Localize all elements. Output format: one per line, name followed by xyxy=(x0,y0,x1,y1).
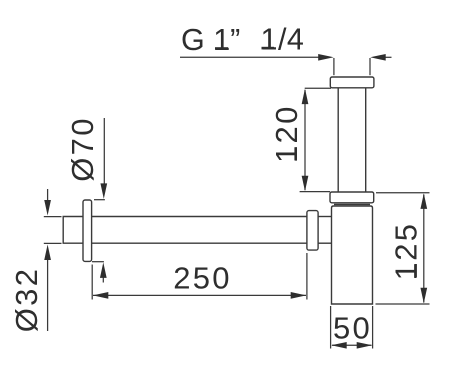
arrow d70 up xyxy=(100,262,107,278)
extension line 50 right xyxy=(372,306,374,349)
wire pipe segment nut to body top xyxy=(318,216,331,218)
gasket line under nut xyxy=(334,204,370,206)
svg-text:Ø70: Ø70 xyxy=(65,116,100,182)
extension line top right xyxy=(369,58,371,75)
arrow top right pointing left xyxy=(370,54,386,61)
arrow d32 up xyxy=(44,245,51,261)
dimension line 250 xyxy=(93,294,306,296)
body top nut xyxy=(330,192,374,203)
wall flange disc (d70) xyxy=(83,200,92,261)
extension line 120 bottom xyxy=(300,191,330,193)
wire d32 top arrow tail xyxy=(47,189,49,202)
arrow 125 up xyxy=(420,193,427,209)
leader line under G 1" 1/4 xyxy=(180,56,319,58)
top flange (G 1" 1/4 connector) xyxy=(330,77,374,88)
foot serif of 1 in G 1" xyxy=(215,47,228,50)
horizontal pipe end cap xyxy=(63,217,83,244)
extension line top left xyxy=(333,58,335,75)
extension line 125 bottom xyxy=(376,303,430,305)
arrow 250 right xyxy=(291,292,307,299)
wire pipe segment nut to body bottom xyxy=(318,242,331,244)
wire pipe bottom edge xyxy=(92,242,307,244)
svg-text:120: 120 xyxy=(269,104,304,163)
wire vertical pipe right edge xyxy=(365,88,367,192)
wire d70 bottom arrow tail xyxy=(102,276,104,283)
extension line d32 top xyxy=(44,216,62,218)
arrow 125 down xyxy=(420,288,427,304)
extension line 120 top xyxy=(305,87,331,89)
dimension line 125 xyxy=(423,195,425,303)
extension line 125 top xyxy=(376,192,430,194)
wire pipe top edge xyxy=(92,216,307,218)
dimension line 50 xyxy=(332,344,372,346)
bottle body xyxy=(332,206,373,304)
arrow 250 left xyxy=(93,292,109,299)
extension line d70 top xyxy=(94,199,105,201)
arrow d70 down xyxy=(100,183,107,199)
dimension line 120 xyxy=(304,90,306,190)
side nut on pipe xyxy=(307,211,318,251)
svg-text:G 1”: G 1” xyxy=(181,23,240,57)
wire vertical pipe left edge xyxy=(337,88,339,192)
svg-text:250: 250 xyxy=(173,261,232,296)
svg-text:50: 50 xyxy=(333,311,372,346)
arrow leader G right xyxy=(318,54,334,61)
foot serif of 1 in 125 xyxy=(414,264,417,277)
arrow 50 right xyxy=(357,342,373,349)
svg-text:1/4: 1/4 xyxy=(261,23,305,57)
extension line d70 bottom xyxy=(92,261,104,263)
extension line 250 right xyxy=(306,253,308,300)
arrow 120 down xyxy=(302,176,309,192)
svg-text:Ø32: Ø32 xyxy=(9,267,44,333)
wire d32 bottom arrow tail xyxy=(47,258,49,331)
leader line d70 xyxy=(103,118,105,186)
svg-text:125: 125 xyxy=(389,222,424,281)
wire right tail of top dimension xyxy=(385,56,392,58)
arrow 120 up xyxy=(302,89,309,105)
foot serif of 1 in 1/4 xyxy=(262,47,275,50)
arrow d32 down xyxy=(44,200,51,216)
extension line 250 left xyxy=(91,265,93,300)
extension line d32 bottom xyxy=(44,242,62,244)
arrow 50 left xyxy=(331,342,347,349)
extension line 50 left xyxy=(330,306,332,349)
foot serif of 1 in 120 xyxy=(294,147,297,160)
